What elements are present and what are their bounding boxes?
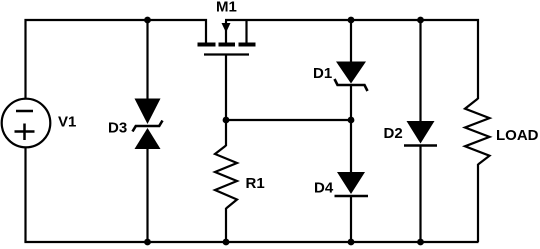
wire: V1 positive terminal up to top rail, right to M1 drain stub bbox=[26, 20, 207, 99]
wire: D4 cathode to bottom rail bbox=[350, 197, 352, 242]
wire: R1 to bottom rail bbox=[225, 208, 227, 242]
junction: bottom rail / R1 branch bbox=[223, 239, 230, 246]
junction: bottom rail / D2 branch bbox=[417, 239, 424, 246]
wire: top rail down to D1 anode bbox=[350, 20, 352, 63]
svg-text:M1: M1 bbox=[216, 0, 237, 16]
junction: node A / D1-D4 midpoint bbox=[348, 117, 355, 124]
junction: bottom rail / D3 branch bbox=[144, 239, 151, 246]
wire: node A to D1/D4 junction bbox=[226, 119, 351, 121]
wire: LOAD to bottom rail bbox=[477, 164, 479, 242]
zener diode D1 bbox=[335, 62, 368, 92]
voltage source V1 bbox=[2, 99, 51, 148]
svg-text:D2: D2 bbox=[384, 125, 403, 142]
wire: D1 cathode to node A junction bbox=[350, 86, 352, 121]
svg-text:R1: R1 bbox=[246, 175, 265, 192]
wire: D3 to bottom rail bbox=[146, 148, 148, 243]
diode D2 bbox=[404, 121, 437, 146]
junction: top rail / D1 branch bbox=[348, 17, 355, 24]
wire: top rail down to D2 anode bbox=[419, 20, 421, 122]
svg-text:D4: D4 bbox=[314, 180, 334, 197]
diode D4 bbox=[335, 172, 369, 196]
svg-text:D3: D3 bbox=[108, 120, 127, 137]
svg-text:V1: V1 bbox=[58, 114, 76, 131]
wire: V1 negative terminal down to bottom rail bbox=[24, 147, 26, 242]
junction: top rail / D3 branch bbox=[144, 17, 151, 24]
junction: node A (gate / R1) bbox=[223, 117, 230, 124]
svg-text:LOAD: LOAD bbox=[496, 127, 539, 144]
wire: top rail down to D3 bbox=[146, 20, 148, 100]
wire: D2 cathode to bottom rail bbox=[419, 147, 421, 243]
resistor R1 bbox=[215, 146, 237, 209]
wire: M1 gate down to node A bbox=[225, 55, 227, 121]
junction: top rail / D2 branch bbox=[417, 17, 424, 24]
wire: top rail right (M1 source/body to D1, D2 and LOAD) bbox=[225, 20, 478, 99]
resistor LOAD bbox=[465, 99, 490, 165]
transistor M1 (N-channel MOSFET) bbox=[198, 20, 256, 55]
svg-text:D1: D1 bbox=[313, 65, 332, 82]
wire: junction down to D4 anode bbox=[350, 120, 352, 173]
wire: bottom rail bbox=[24, 241, 478, 243]
TVS diode D3 (bidirectional) bbox=[133, 99, 163, 150]
junction: bottom rail / D4 branch bbox=[348, 239, 355, 246]
wire: node A down to R1 bbox=[225, 120, 227, 146]
